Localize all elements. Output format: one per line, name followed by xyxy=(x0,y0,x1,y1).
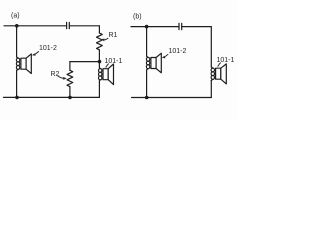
wire (a) left vertical upper xyxy=(16,26,18,57)
wire R2 bottom lead xyxy=(69,87,71,98)
wire (b) top rail right segment xyxy=(182,26,212,28)
leader arrow to 101-1 (b) xyxy=(217,63,221,67)
wire (a) right vertical middle lead xyxy=(98,50,100,62)
wire (a) top rail right segment xyxy=(69,25,99,27)
leader arrow to R1 xyxy=(101,38,108,41)
node (a) bottom-middle junction xyxy=(68,96,72,100)
loudspeaker 101-2 (b): driver rectangle xyxy=(151,58,156,69)
svg-text:(a): (a) xyxy=(11,13,20,20)
leader arrow to 101-1 (a) xyxy=(105,64,109,68)
loudspeaker 101-2 (a): cone xyxy=(26,54,31,74)
node (a) mid-right junction xyxy=(98,60,102,64)
loudspeaker 101-1 (b): cone xyxy=(221,64,227,84)
node (b) bottom-left junction xyxy=(145,96,149,100)
wire (a) right vertical top lead xyxy=(98,26,100,33)
loudspeaker 101-1 (a): driver rectangle xyxy=(103,69,108,80)
leader arrow to R2 xyxy=(58,76,67,80)
leader arrow to 101-2 (a) xyxy=(32,52,39,56)
svg-text:R1: R1 xyxy=(109,32,118,39)
loudspeaker 101-1 (a): cone xyxy=(108,64,113,85)
wire (a) top rail left segment xyxy=(4,25,66,27)
svg-text:101-2: 101-2 xyxy=(169,48,187,55)
capacitor C-a xyxy=(67,22,70,28)
loudspeaker 101-2 (b): cone xyxy=(156,53,161,73)
wire (b) left vertical lower xyxy=(146,70,148,98)
wire (a) right vertical bottom xyxy=(98,81,100,97)
resistor R2 xyxy=(67,70,73,86)
loudspeaker 101-2 (a): coil xyxy=(16,57,19,71)
loudspeaker 101-1 (b): driver rectangle xyxy=(216,68,221,79)
svg-text:R2: R2 xyxy=(51,71,60,78)
wire (a) mid rail xyxy=(70,61,100,63)
wire (b) right vertical upper xyxy=(210,27,212,67)
svg-text:101-2: 101-2 xyxy=(39,45,57,52)
loudspeaker 101-1 (a): coil xyxy=(99,68,102,82)
wire (b) left vertical upper xyxy=(146,27,148,57)
loudspeaker 101-2 (a): driver rectangle xyxy=(21,58,26,69)
wire R2 top lead xyxy=(69,62,71,71)
resistor R1 xyxy=(97,33,103,50)
capacitor C-b xyxy=(179,23,182,29)
wire (a) bottom rail xyxy=(4,96,100,98)
loudspeaker 101-1 (b): coil xyxy=(211,67,214,81)
svg-text:101-1: 101-1 xyxy=(217,57,235,64)
leader arrow to 101-2 (b) xyxy=(162,54,168,58)
loudspeaker 101-2 (b): coil xyxy=(146,56,149,70)
wire (a) right vertical to speaker xyxy=(98,62,100,68)
wire (b) top rail left segment xyxy=(131,26,179,28)
wire (a) left vertical lower xyxy=(16,71,18,98)
node (b) top-left junction xyxy=(145,25,149,29)
svg-text:(b): (b) xyxy=(133,14,142,21)
wire (b) right vertical lower xyxy=(210,81,212,98)
wire (b) bottom rail xyxy=(132,97,212,99)
node (a) bottom-left junction xyxy=(15,96,19,100)
svg-text:101-1: 101-1 xyxy=(105,58,123,65)
node (a) top-left junction xyxy=(15,24,19,28)
